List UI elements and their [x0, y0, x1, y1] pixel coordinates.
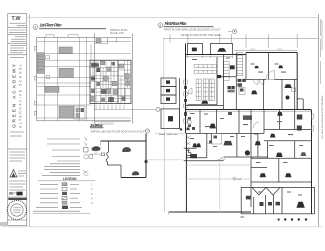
plan B right main wall — [296, 53, 298, 110]
svg-text:First Floor Plan: First Floor Plan — [165, 21, 187, 26]
toilet cluster dark marks — [228, 79, 246, 95]
library shelf bank 2 — [203, 79, 208, 101]
svg-text:PARTIAL PLAN: PARTIAL PLAN — [110, 29, 128, 32]
plan A grid verticals — [36, 37, 38, 121]
library shelf bank 1 — [196, 79, 201, 101]
gym small markers — [233, 177, 242, 181]
plan B wall y76.8 — [217, 76, 236, 78]
plan A core extra partitions — [90, 60, 131, 103]
bottom-right room block — [241, 187, 314, 213]
sheet top edge faint line — [28, 17, 318, 19]
bottom dots row — [241, 217, 308, 221]
stair ladder 2 — [237, 53, 243, 76]
plan C left branch lines — [91, 148, 102, 154]
right step outline — [297, 99, 314, 214]
middle band lower wall y133.4 — [186, 132, 265, 134]
small room marks — [212, 133, 222, 144]
svg-text:2: 2 — [159, 24, 161, 28]
bottom-left corner smudge — [0, 222, 7, 226]
wall y129.5 right — [264, 129, 311, 131]
svg-text:T.W: T.W — [12, 16, 21, 22]
svg-text:PARTIAL SECOND FLOOR ROOF PLAN: PARTIAL SECOND FLOOR ROOF PLAN LAYOUT — [91, 130, 146, 133]
svg-text:FIRST FLOOR MAIN LEVEL BUILDIN: FIRST FLOOR MAIN LEVEL BUILDING LAYOUT — [164, 27, 221, 31]
plan A shaded room mid — [59, 68, 73, 77]
title block border — [8, 14, 27, 226]
wall y157 — [223, 156, 267, 158]
library right wall — [216, 57, 218, 105]
mid cluster rooms — [186, 134, 212, 159]
gym big empty room walls — [169, 133, 251, 214]
architect seal circle — [7, 200, 27, 220]
plan B lower dimension line under top rooms — [186, 55, 233, 58]
corridor door arcs below wall — [253, 79, 264, 84]
plan A shaded room top — [59, 47, 72, 54]
wall above entry y182 — [251, 181, 312, 183]
plan A small wall boxes — [46, 56, 50, 79]
left wing room 2 — [161, 86, 176, 95]
plan C bottom wall — [121, 177, 146, 179]
top-left room 1 — [188, 44, 203, 55]
title block lower lines — [10, 181, 26, 193]
plan A title underline — [39, 28, 106, 30]
library shelves row 2 — [194, 70, 216, 73]
faint text dashes left of cluster — [159, 133, 178, 136]
dark cabinet mark — [230, 65, 235, 69]
plan A core extra cells — [91, 61, 130, 102]
svg-text:SCALE: NTS: SCALE: NTS — [110, 32, 124, 35]
plan A left wall door bumps — [34, 47, 36, 116]
plan A core outline — [90, 60, 131, 103]
plan A title bubble — [33, 25, 38, 30]
plan C dark dot on wall — [145, 160, 148, 163]
svg-text:LEGEND:: LEGEND: — [63, 177, 77, 181]
svg-text:KEYED FLOOR NOTES THIS LEVEL: KEYED FLOOR NOTES THIS LEVEL — [181, 34, 222, 37]
svg-text:ALTERNATIVE SCHOOL: ALTERNATIVE SCHOOL — [19, 64, 23, 128]
right sheet border line — [317, 14, 319, 227]
plan C roof vent box — [101, 153, 104, 156]
plan B grid ticks above — [164, 34, 297, 212]
left wing corridor wall — [178, 78, 180, 129]
title block mid lines — [8, 132, 27, 161]
left wing room 3 — [161, 95, 176, 104]
left wing room 1 — [161, 78, 176, 86]
plan B secondary corridor wall y105.4 — [186, 104, 224, 106]
small dark dot near wing — [180, 128, 182, 130]
plan C right wall — [145, 134, 147, 178]
middle band room walls — [200, 79, 295, 207]
plan B top wall left section — [186, 54, 247, 56]
legend items — [33, 183, 93, 214]
plan A bottom hatch marks — [96, 105, 124, 110]
top-left room 2 — [211, 44, 233, 55]
plan B vertical wall x236.3 — [235, 53, 237, 110]
plan B top grid line — [163, 37, 318, 39]
svg-text:1: 1 — [34, 26, 36, 30]
title block rotated project name — [12, 63, 23, 128]
sheet number row — [8, 192, 27, 200]
engineer logo triangle — [10, 170, 26, 178]
room tiny label dashes plan B — [190, 58, 303, 164]
room tiny labels — [251, 64, 287, 73]
plan A grid horizontals — [37, 36, 131, 38]
dark mark left of stair — [217, 75, 221, 78]
plan C inner jog walls — [107, 141, 109, 152]
plan A core dark cells — [91, 64, 131, 102]
keynote lines — [47, 138, 80, 140]
W rooms divider — [267, 53, 269, 80]
plan B vertical wall x223.4 — [222, 55, 224, 110]
library shelf bank 3 — [209, 79, 214, 101]
library desk dark trapezoid — [201, 101, 208, 104]
W rooms bottom wall with door — [246, 71, 297, 80]
plan B top wall right section — [246, 52, 297, 54]
rooms y130-141 right — [255, 134, 311, 146]
plan B left main wall — [185, 44, 187, 134]
wall y160.7 left — [184, 160, 224, 162]
plan A core stair treads — [91, 63, 99, 67]
title block text lines top — [8, 23, 27, 57]
svg-text:14'-0": 14'-0" — [250, 49, 256, 51]
faint grid extension lines right plan — [147, 133, 186, 159]
wall y148 left — [184, 147, 197, 149]
plan B corridor main wall y109.5 — [186, 109, 312, 111]
library shelves row 1 — [194, 65, 216, 68]
plan A bottom-right small cells — [74, 106, 85, 119]
plan A stair shaft left — [37, 53, 44, 74]
plan C tree cloud 2 — [122, 147, 131, 152]
library bottom wall — [188, 104, 217, 106]
plan C left stub — [100, 141, 102, 146]
plan A roof bumps on top wall — [46, 35, 78, 38]
stair ladder 1 — [224, 61, 230, 80]
plan A shaded room bottom — [59, 106, 74, 118]
plan B vertical wall x246 — [245, 53, 247, 80]
left wing big room — [161, 109, 179, 129]
plan A small top rooms — [95, 37, 117, 44]
svg-text:NO. DATE REVISION DESCRIPTION: NO. DATE REVISION DESCRIPTION APPR — [321, 95, 324, 139]
center W label room — [223, 133, 258, 157]
corridor fixtures column — [184, 80, 188, 123]
lower right rooms y158-182 — [260, 158, 292, 182]
svg-text:2nd Floor: 2nd Floor — [89, 123, 103, 128]
svg-text:G1: G1 — [238, 177, 242, 181]
library left door arc — [188, 88, 192, 94]
room furniture above cluster — [187, 127, 196, 130]
plan B top dimension line — [234, 49, 297, 51]
plan C tree cloud 3 — [132, 171, 139, 175]
partial wall y167.6 — [251, 167, 267, 169]
sheet bottom edge faint line — [2, 226, 322, 228]
plan C title bubble — [145, 129, 149, 133]
door swings along y127 — [253, 122, 259, 128]
room w desk right mid — [251, 141, 311, 159]
plan A core internal walls — [90, 60, 131, 103]
plan C top wall — [101, 140, 146, 142]
room below W rooms: desks and marks — [251, 79, 295, 109]
svg-text:1st Floor Plan: 1st Floor Plan — [40, 23, 62, 28]
svg-text:14'-0": 14'-0" — [277, 49, 283, 51]
plan C tree cloud 1 — [92, 146, 101, 151]
W room desk marks top — [254, 66, 259, 68]
break line — [218, 157, 226, 161]
plan A bottom dimension ticks — [95, 122, 130, 126]
middle band furniture — [188, 112, 283, 128]
right border vertical tiny notes — [321, 95, 324, 139]
plan B keynote marker bubble — [228, 29, 237, 34]
plan A shaded room lower-left — [45, 86, 59, 92]
drawing area left border — [28, 14, 30, 226]
plan A grid line extension with bubble — [94, 108, 156, 110]
